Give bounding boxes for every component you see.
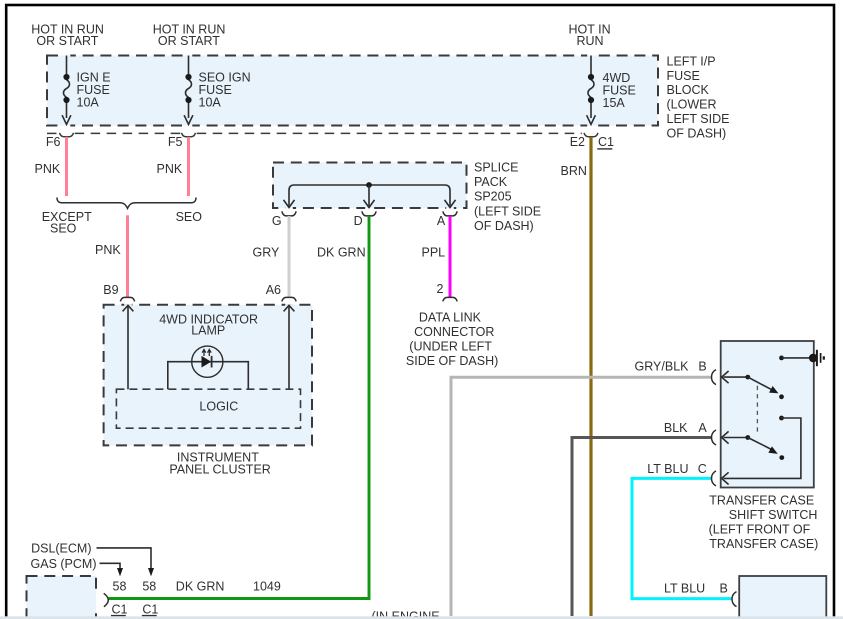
svg-text:B9: B9 (103, 283, 118, 297)
splice junction dot (366, 182, 372, 188)
splice pin dips G D A (282, 211, 457, 216)
svg-text:F6: F6 (46, 135, 61, 149)
switch contact dot (middle, to C) (779, 416, 784, 421)
svg-text:G: G (272, 214, 282, 228)
svg-text:RUN: RUN (577, 34, 604, 48)
svg-text:2: 2 (437, 282, 444, 296)
switch pivot dot A (745, 435, 750, 440)
svg-text:(UNDER LEFT: (UNDER LEFT (409, 339, 492, 353)
svg-text:LEFT I/P: LEFT I/P (667, 54, 716, 68)
instrument panel cluster caption (169, 451, 270, 477)
connector bump B9 (120, 297, 134, 301)
svg-text:DATA LINK: DATA LINK (419, 311, 482, 325)
wire GRY (288, 216, 291, 297)
wire BRN (589, 137, 592, 616)
svg-text:(LEFT FRONT OF: (LEFT FRONT OF (709, 523, 811, 537)
svg-text:TRANSFER CASE: TRANSFER CASE (709, 494, 814, 508)
svg-text:CONNECTOR: CONNECTOR (414, 325, 494, 339)
svg-text:(LOWER: (LOWER (667, 97, 717, 111)
switch connector arc A (712, 430, 716, 445)
svg-text:PNK: PNK (35, 162, 61, 176)
wire PNK to B9 (126, 215, 129, 297)
switch pin B arrow (722, 371, 748, 383)
svg-text:B: B (698, 360, 706, 374)
wire GRY/BLK (451, 377, 712, 616)
svg-text:D: D (354, 214, 363, 228)
svg-text:C1: C1 (142, 602, 158, 616)
LED lamp circuit wires (168, 362, 249, 390)
splice arm A (445, 200, 456, 208)
splice pack SP205 box (273, 161, 541, 234)
node HOT IN RUN OR START (middle) (153, 22, 226, 48)
wire to case ground (782, 357, 814, 359)
svg-text:BLK: BLK (664, 421, 688, 435)
svg-text:LEFT SIDE: LEFT SIDE (667, 112, 730, 126)
node EXCEPT SEO (42, 210, 92, 236)
svg-text:10A: 10A (199, 96, 222, 110)
svg-text:LAMP: LAMP (191, 324, 225, 338)
svg-text:DSL(ECM): DSL(ECM) (31, 542, 91, 556)
fuse SEO IGN 10A (184, 56, 193, 125)
svg-text:58: 58 (142, 580, 156, 594)
node HOT IN RUN OR START (left) (31, 22, 104, 48)
svg-text:A6: A6 (266, 283, 281, 297)
switch blade A (748, 438, 771, 450)
bottom component box (739, 576, 826, 619)
svg-text:OF DASH): OF DASH) (667, 127, 727, 141)
ground symbol (817, 350, 824, 366)
connector bump A6 (282, 297, 296, 301)
svg-text:BRN: BRN (561, 164, 587, 178)
svg-text:DK GRN: DK GRN (317, 246, 366, 260)
svg-text:PNK: PNK (95, 243, 121, 257)
logic box (116, 389, 300, 428)
transfer case shift switch box (721, 341, 814, 488)
switch contact dot (ground side) (779, 356, 784, 361)
LED indicator lamp (192, 346, 223, 377)
cluster entry arrow A6 (284, 305, 295, 389)
bottom crop strip (0, 616, 843, 619)
svg-text:1049: 1049 (253, 580, 281, 594)
svg-text:FUSE: FUSE (667, 69, 700, 83)
switch connector arc C (712, 471, 717, 486)
svg-text:LT BLU: LT BLU (664, 582, 705, 596)
svg-text:PANEL CLUSTER: PANEL CLUSTER (169, 462, 270, 476)
svg-text:GRY/BLK: GRY/BLK (635, 360, 690, 374)
wire from middle contact to pin C (724, 418, 801, 478)
svg-text:SIDE OF DASH): SIDE OF DASH) (406, 354, 498, 368)
cluster entry arrow B9 (123, 305, 134, 389)
svg-text:PACK: PACK (474, 175, 508, 189)
PCM connector arc (104, 593, 109, 607)
svg-text:C1: C1 (112, 602, 128, 616)
svg-text:SHIFT SWITCH: SHIFT SWITCH (729, 508, 818, 522)
wire DK GRN (vertical + bottom run 1049) (108, 216, 369, 599)
svg-text:OF DASH): OF DASH) (474, 219, 534, 233)
svg-text:B: B (720, 582, 728, 596)
svg-text:58: 58 (113, 580, 127, 594)
switch linkage dashed line (756, 386, 758, 433)
svg-text:A: A (437, 214, 446, 228)
DSL(ECM) pointer (31, 542, 154, 577)
brace joining F6/F5 wires (57, 198, 196, 209)
svg-text:GRY: GRY (253, 246, 281, 260)
connector C1 labels (bottom) (111, 602, 158, 616)
svg-text:LT BLU: LT BLU (647, 462, 688, 476)
svg-text:DK GRN: DK GRN (176, 580, 225, 594)
svg-text:LOGIC: LOGIC (199, 400, 238, 414)
svg-text:F5: F5 (168, 135, 183, 149)
svg-text:SP205: SP205 (474, 190, 512, 204)
svg-text:SPLICE: SPLICE (474, 161, 518, 175)
splice arm D (364, 185, 375, 208)
svg-text:E2: E2 (570, 135, 585, 149)
svg-text:15A: 15A (603, 96, 626, 110)
svg-text:(LEFT SIDE: (LEFT SIDE (474, 205, 541, 219)
left I/P fuse block box (47, 54, 729, 141)
wire PNK from F5 (187, 137, 190, 196)
svg-text:A: A (698, 421, 707, 435)
data link connector caption (406, 311, 498, 368)
wire LT BLU (switch C to bottom component) (632, 478, 732, 598)
switch connector arc B (712, 370, 716, 385)
fuse IGN E 10A (62, 56, 71, 125)
splice arm G (284, 200, 295, 208)
switch pin A arrow (722, 431, 748, 443)
instrument panel cluster box (104, 303, 312, 445)
svg-text:SEO: SEO (176, 210, 203, 224)
svg-text:GAS (PCM): GAS (PCM) (31, 557, 97, 571)
svg-text:TRANSFER CASE): TRANSFER CASE) (709, 537, 818, 551)
fuse block connector line with pin dips F6 F5 E2 (47, 133, 598, 137)
svg-text:PPL: PPL (422, 246, 446, 260)
switch contact dot (A thrown) (779, 455, 784, 460)
wire PPL (449, 216, 452, 297)
wire BLK (572, 438, 712, 617)
bottom component connector arc B (732, 592, 737, 607)
svg-text:OR START: OR START (36, 34, 98, 48)
node HOT IN RUN (right) (569, 22, 611, 48)
PCM/ECM box (27, 576, 97, 619)
svg-text:SEO: SEO (50, 222, 77, 236)
svg-text:BLOCK: BLOCK (667, 83, 710, 97)
GAS (PCM) pointer (31, 557, 123, 576)
splice bus wire (289, 185, 450, 206)
switch blade B (748, 377, 772, 390)
svg-text:OR START: OR START (158, 34, 220, 48)
connector bump pin 2 (443, 297, 457, 301)
wire PNK from F6 (65, 137, 68, 196)
switch pivot dot B (745, 375, 750, 380)
transfer case shift switch caption (709, 494, 819, 551)
svg-text:PNK: PNK (157, 162, 183, 176)
svg-text:C: C (698, 462, 707, 476)
switch contact dot (B thrown) (779, 394, 784, 399)
connector C1 label (597, 135, 614, 149)
svg-text:C1: C1 (598, 135, 614, 149)
fuse 4WD 15A (587, 56, 596, 125)
svg-text:10A: 10A (77, 96, 100, 110)
